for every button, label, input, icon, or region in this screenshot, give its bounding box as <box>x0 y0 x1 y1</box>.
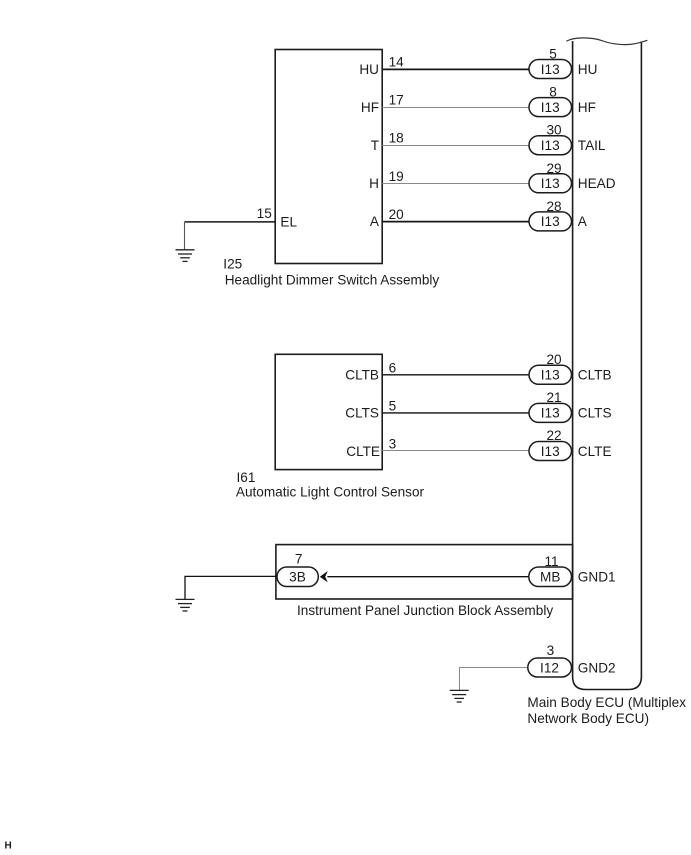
ECU torn-top wavy line <box>566 38 647 45</box>
svg-text:I13: I13 <box>541 176 560 191</box>
svg-text:A: A <box>370 214 380 229</box>
svg-text:I13: I13 <box>541 214 560 229</box>
wire pin 17 HF <box>382 107 530 109</box>
svg-text:CLTB: CLTB <box>345 368 379 383</box>
wire pin 3 CLTE <box>382 450 530 452</box>
svg-text:18: 18 <box>389 131 404 146</box>
svg-text:MB: MB <box>540 570 560 585</box>
svg-text:3: 3 <box>389 437 397 452</box>
svg-text:H: H <box>369 176 379 191</box>
svg-text:A: A <box>578 214 588 229</box>
svg-text:I13: I13 <box>541 100 560 115</box>
junction block Instrument Panel Junction Block Assembly <box>276 545 573 599</box>
svg-text:Automatic Light Control Sensor: Automatic Light Control Sensor <box>236 485 425 500</box>
svg-text:14: 14 <box>389 55 405 70</box>
ground symbol G1 <box>176 250 195 262</box>
wire junction block to ground <box>185 576 276 599</box>
svg-text:CLTE: CLTE <box>578 444 612 459</box>
connector oval I13 pin 21 <box>529 390 572 422</box>
svg-text:29: 29 <box>546 161 561 176</box>
svg-text:I12: I12 <box>540 660 559 675</box>
svg-text:6: 6 <box>389 360 397 375</box>
svg-text:Network Body ECU): Network Body ECU) <box>527 711 649 726</box>
svg-text:CLTS: CLTS <box>578 406 612 421</box>
svg-text:I13: I13 <box>541 368 560 383</box>
svg-text:HU: HU <box>359 62 379 77</box>
svg-text:15: 15 <box>257 206 272 221</box>
connector oval 3B pin 7 <box>277 552 318 587</box>
svg-text:I25: I25 <box>223 257 242 272</box>
svg-text:HEAD: HEAD <box>578 176 616 191</box>
svg-text:5: 5 <box>549 47 557 62</box>
svg-text:CLTS: CLTS <box>345 406 379 421</box>
svg-text:CLTB: CLTB <box>578 368 612 383</box>
svg-text:5: 5 <box>389 398 397 413</box>
svg-text:HF: HF <box>578 100 596 115</box>
wire pin 18 T <box>382 145 530 147</box>
svg-text:7: 7 <box>295 552 303 567</box>
svg-text:Instrument Panel Junction Bloc: Instrument Panel Junction Block Assembly <box>297 603 553 618</box>
svg-text:EL: EL <box>280 215 297 230</box>
svg-text:H: H <box>5 841 12 852</box>
ground symbol G3 <box>450 690 469 702</box>
connector oval I13 pin 8 <box>529 85 572 117</box>
connector oval MB pin 11 <box>529 554 572 587</box>
connector oval I13 pin 28 <box>529 199 572 231</box>
wire pin 5 CLTS <box>382 412 530 414</box>
svg-text:8: 8 <box>549 85 557 100</box>
connector oval I13 pin 30 <box>529 123 572 155</box>
connector oval I13 pin 20 <box>529 352 572 384</box>
arrow head <box>320 571 328 582</box>
svg-text:I13: I13 <box>541 62 560 77</box>
ground symbol G2 <box>176 599 195 611</box>
wire pin 19 H <box>382 183 530 185</box>
svg-text:17: 17 <box>389 93 404 108</box>
svg-text:30: 30 <box>546 123 562 138</box>
svg-text:Main Body ECU (Multiplex: Main Body ECU (Multiplex <box>527 695 686 710</box>
svg-text:11: 11 <box>544 554 558 569</box>
svg-text:21: 21 <box>546 390 561 405</box>
svg-text:20: 20 <box>546 352 562 367</box>
svg-text:3B: 3B <box>289 570 306 585</box>
wire pin 14 HU <box>382 68 530 70</box>
connector block I61 Automatic Light Control Sensor <box>275 354 382 469</box>
connector oval I13 pin 29 <box>529 161 572 193</box>
svg-text:CLTE: CLTE <box>346 444 380 459</box>
svg-text:3: 3 <box>547 643 555 658</box>
connector block I25 Headlight Dimmer Switch Assembly <box>275 50 382 264</box>
connector oval I13 pin 22 <box>529 428 572 460</box>
svg-text:Headlight Dimmer Switch Assemb: Headlight Dimmer Switch Assembly <box>225 273 440 288</box>
svg-text:28: 28 <box>546 199 561 214</box>
svg-text:TAIL: TAIL <box>578 138 606 153</box>
svg-text:I13: I13 <box>541 444 560 459</box>
svg-text:GND2: GND2 <box>578 660 616 675</box>
ECU body Main Body ECU <box>573 41 642 690</box>
wire GND2 to ground <box>460 668 529 691</box>
svg-text:22: 22 <box>546 428 561 443</box>
svg-text:HU: HU <box>578 62 598 77</box>
wire pin 15 EL to ground <box>185 221 276 223</box>
svg-text:GND1: GND1 <box>578 570 616 585</box>
wire pin 6 CLTB <box>382 374 530 376</box>
wire pin 20 A <box>382 221 530 223</box>
svg-text:19: 19 <box>389 169 404 184</box>
svg-text:I61: I61 <box>237 470 256 485</box>
svg-text:I13: I13 <box>541 138 560 153</box>
connector oval I13 pin 5 <box>529 47 572 79</box>
svg-text:T: T <box>371 138 379 153</box>
connector oval I12 pin 3 <box>528 643 572 677</box>
svg-text:HF: HF <box>361 100 379 115</box>
svg-text:20: 20 <box>389 207 405 222</box>
svg-text:I13: I13 <box>541 406 560 421</box>
wire 3B to MB <box>327 576 530 578</box>
